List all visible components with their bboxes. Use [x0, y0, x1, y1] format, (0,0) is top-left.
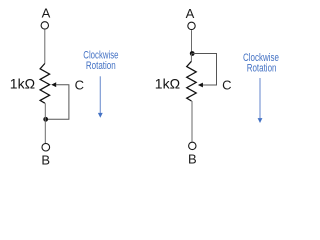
clockwise rotation arrow (right) [258, 78, 263, 123]
junction dot (right, wiper tied to top) [190, 51, 195, 56]
wiper arrowhead (left) [51, 82, 56, 87]
terminal B (right) [189, 142, 196, 149]
terminal A (right) [188, 22, 195, 29]
wiper wire loop: junction to arrow (right) [192, 54, 216, 86]
resistor R 1kΩ (right potentiometer body) [187, 61, 197, 101]
svg-text:1kΩ: 1kΩ [10, 75, 35, 91]
node A (left potentiometer) [42, 6, 51, 21]
svg-text:B: B [41, 153, 50, 168]
value label 1kΩ (left) [10, 75, 35, 91]
svg-text:B: B [188, 152, 197, 167]
junction dot (left, wiper tied to bottom) [43, 117, 48, 122]
node C label (left) [75, 77, 84, 92]
wire resistor bottom to terminal B (right) [191, 101, 193, 142]
svg-text:A: A [186, 6, 195, 21]
wiper arrowhead (right) [198, 83, 203, 88]
value label 1kΩ (right) [155, 75, 180, 91]
node C label (right) [222, 77, 231, 92]
wire junction to resistor top (right) [190, 54, 192, 62]
annotation: Clockwise Rotation (left) [83, 50, 118, 73]
node B (right) [188, 152, 197, 167]
svg-text:C: C [222, 77, 231, 92]
svg-text:A: A [42, 6, 51, 21]
clockwise rotation arrow (left) [98, 76, 103, 118]
resistor R 1kΩ (left potentiometer body) [40, 64, 50, 104]
terminal B (left) [42, 143, 50, 151]
svg-text:1kΩ: 1kΩ [155, 75, 180, 91]
wire A terminal to junction (right) [191, 30, 193, 53]
svg-text:Rotation: Rotation [247, 62, 277, 74]
node B (left) [41, 153, 50, 168]
wire A terminal to resistor top (left) [44, 30, 46, 64]
node A (right potentiometer) [186, 6, 195, 21]
svg-text:Rotation: Rotation [86, 60, 116, 72]
wire resistor bottom to terminal B (left) [44, 103, 46, 143]
annotation: Clockwise Rotation (right) [243, 52, 279, 75]
terminal A (left) [41, 22, 48, 29]
wiper wire: arrow to loop corner (left) [46, 85, 69, 120]
svg-text:C: C [75, 77, 84, 92]
